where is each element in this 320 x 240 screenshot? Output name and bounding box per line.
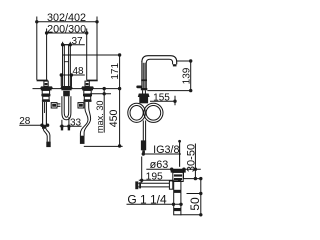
right valve clamp nut — [83, 94, 92, 96]
left valve body below deck — [42, 90, 49, 94]
svg-text:50: 50 — [188, 197, 202, 211]
svg-text:28: 28 — [19, 116, 31, 127]
dimension max. 30 — [90, 87, 111, 133]
extension line right inner (200/300) — [86, 29, 88, 80]
svg-text:48: 48 — [72, 66, 84, 77]
side view riser — [142, 61, 146, 88]
left hose connector — [46, 142, 50, 148]
left valve clamp nut — [41, 94, 50, 96]
dimension 155 — [150, 93, 177, 106]
svg-text:139: 139 — [181, 67, 192, 84]
riser ring — [141, 79, 147, 81]
right valve side fitting — [78, 103, 84, 108]
hose loop left ring — [128, 103, 146, 122]
right valve escutcheon — [81, 86, 94, 88]
svg-text:max. 30: max. 30 — [95, 100, 105, 133]
svg-text:G 1 1/4: G 1 1/4 — [127, 192, 167, 206]
spout under-deck washer — [61, 89, 71, 91]
dimension 195 — [139, 157, 182, 184]
left handle lever — [37, 80, 49, 87]
deck line front view — [33, 88, 120, 90]
side knob — [136, 86, 142, 89]
drain pull rod — [178, 140, 181, 167]
drain flange — [171, 169, 186, 172]
spout under-deck nut stack — [63, 91, 70, 97]
dimension 33 — [60, 117, 82, 128]
extension line right outer (302/402) — [96, 17, 98, 80]
dimension 28 — [19, 116, 49, 127]
drain tailpipe — [174, 182, 181, 215]
side view spout outlet tip — [173, 64, 177, 66]
left valve escutcheon — [40, 86, 53, 88]
left valve under-deck washer — [41, 89, 52, 91]
svg-text:33: 33 — [70, 117, 82, 128]
right hose — [80, 102, 90, 136]
svg-text:171: 171 — [110, 63, 121, 80]
horizontal waste pipe — [138, 183, 169, 187]
left valve nut 2 — [42, 100, 50, 102]
svg-text:ø63: ø63 — [150, 159, 169, 171]
spout escutcheon — [60, 86, 72, 89]
side view spout tube — [142, 56, 177, 65]
dimension 48 — [60, 66, 85, 77]
svg-text:IG3/8: IG3/8 — [153, 144, 179, 156]
side escutcheon — [138, 94, 150, 98]
waste pipe end cap — [135, 181, 138, 189]
svg-text:195: 195 — [146, 171, 163, 182]
dimension 50 — [181, 177, 203, 217]
side hose connector nipple — [142, 150, 145, 153]
right handle lever — [85, 80, 98, 87]
left valve tail dark tip — [42, 126, 46, 129]
label G 1 1/4 — [127, 192, 183, 206]
dimension 200/300 — [45, 23, 89, 35]
spout top reference line — [63, 54, 120, 56]
left valve tail tube — [43, 102, 47, 126]
svg-text:155: 155 — [153, 93, 170, 104]
svg-text:450: 450 — [108, 109, 120, 127]
left valve body lower — [43, 96, 49, 100]
label 1G3/8 with leader — [142, 144, 181, 156]
svg-text:37: 37 — [71, 36, 83, 47]
hose tails under loop — [61, 117, 70, 130]
drain body — [173, 172, 183, 181]
hose bottom reference line — [84, 145, 123, 147]
side hose connector — [141, 140, 146, 150]
hose down from loop — [143, 121, 145, 141]
extension line left inner (200/300) — [46, 29, 48, 80]
dimension 302/402 — [35, 12, 99, 24]
svg-text:30-50: 30-50 — [186, 144, 198, 172]
svg-text:200/300: 200/300 — [47, 23, 86, 35]
spout column front view — [61, 45, 71, 86]
left valve side fitting — [51, 103, 60, 108]
right valve body below deck — [84, 90, 91, 94]
left hose — [43, 129, 50, 142]
dimension 30-50 — [184, 144, 202, 181]
right valve nut 2 — [84, 100, 92, 102]
right valve body lower — [84, 96, 90, 100]
right hose connector — [80, 136, 85, 144]
extension line left outer (302/402) — [36, 17, 38, 80]
drain pipe elbow — [169, 181, 172, 189]
dimension 139 — [147, 59, 192, 92]
dimension ø63 — [146, 159, 201, 171]
riser lower ring — [141, 88, 148, 90]
hose U-loop under spout — [62, 96, 71, 120]
dimension 37 — [61, 36, 85, 47]
side under-deck stack — [139, 97, 148, 103]
right valve under-deck washer — [82, 89, 93, 91]
dimension 171 and 450 vertical line — [108, 53, 121, 147]
hose loop right ring — [144, 103, 163, 122]
